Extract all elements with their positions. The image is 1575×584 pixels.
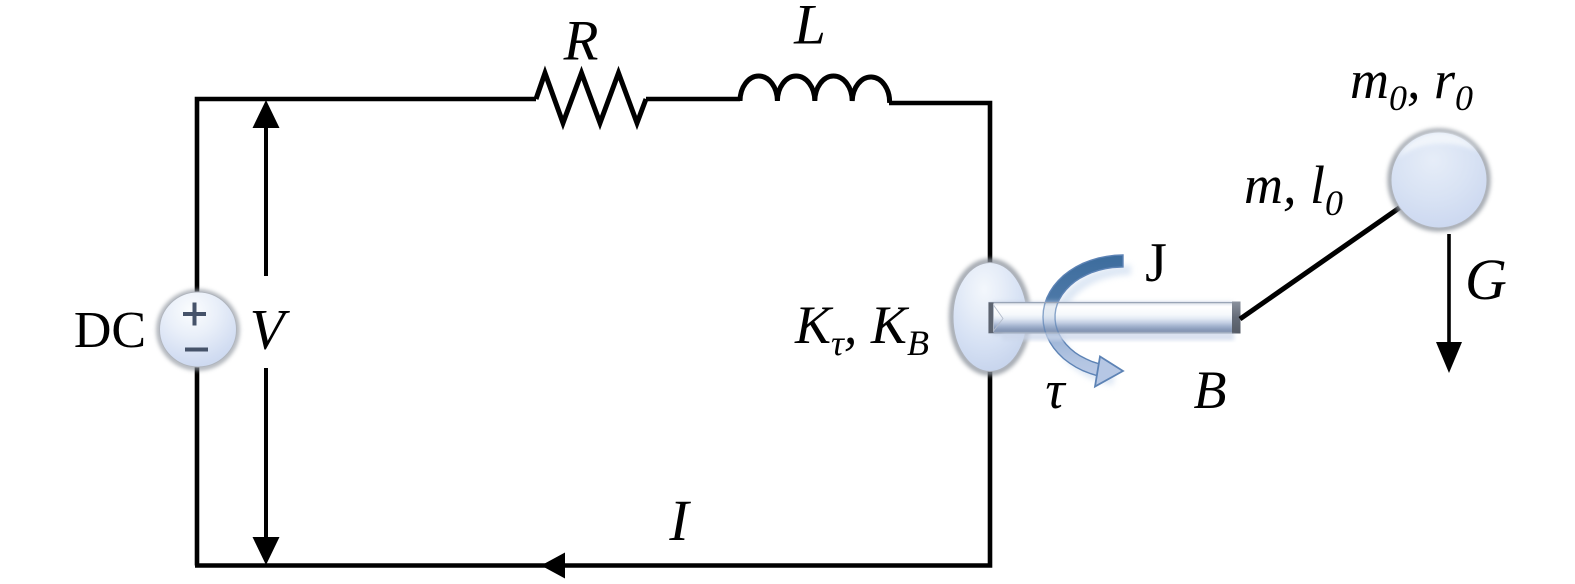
shaft left cone bevel bbox=[994, 305, 1004, 331]
inductor L bbox=[740, 76, 890, 103]
DC source circle bbox=[159, 292, 237, 368]
rotation arrowhead bbox=[1095, 357, 1123, 387]
svg-text:L: L bbox=[793, 0, 826, 57]
motor body (ellipse) bbox=[952, 262, 1028, 373]
pendulum rod bbox=[1240, 199, 1412, 319]
svg-text:G: G bbox=[1465, 247, 1507, 312]
wire between resistor and inductor bbox=[646, 97, 740, 102]
shaft left end bar bbox=[989, 303, 994, 334]
svg-text:I: I bbox=[668, 488, 691, 553]
svg-text:m, l0: m, l0 bbox=[1244, 155, 1343, 223]
pendulum ball bbox=[1391, 132, 1488, 229]
svg-text:Kτ, KB: Kτ, KB bbox=[794, 295, 929, 363]
svg-text:J: J bbox=[1145, 232, 1167, 294]
current arrowhead I bbox=[541, 553, 565, 579]
svg-text:R: R bbox=[563, 10, 599, 73]
svg-text:B: B bbox=[1194, 360, 1227, 420]
rotation arrow (curved ribbon) bbox=[1043, 255, 1131, 381]
svg-text:DC: DC bbox=[74, 302, 146, 359]
wire: left vertical and top segment to resistor bbox=[197, 99, 536, 566]
minus sign bbox=[185, 348, 208, 352]
svg-text:m0, r0: m0, r0 bbox=[1350, 50, 1473, 118]
motor shaft bbox=[989, 302, 1241, 341]
svg-text:V: V bbox=[250, 299, 291, 362]
gravity arrow G bbox=[1436, 234, 1462, 373]
ribbon segment crossing shaft (translucent) bbox=[1043, 255, 1123, 376]
shaft right end cap bbox=[1232, 302, 1241, 334]
plus sign bbox=[183, 312, 206, 316]
resistor R bbox=[536, 73, 646, 123]
svg-text:τ: τ bbox=[1045, 360, 1066, 420]
voltage arrow V (double-headed) bbox=[253, 100, 280, 565]
wire: inductor to top-right corner, right vertical, bottom wire bbox=[195, 103, 990, 566]
